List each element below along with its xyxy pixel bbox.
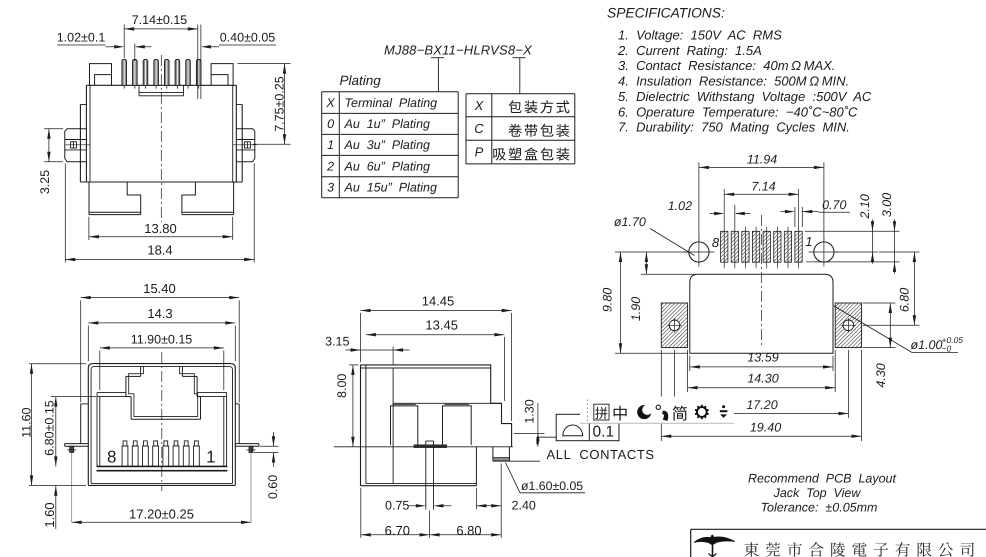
label ø1.60±0.05 with leader — [506, 463, 586, 494]
dim 0.70 (pcb) — [780, 198, 850, 227]
svg-text:1: 1 — [327, 138, 334, 152]
dim 1.02 (pcb) — [668, 199, 751, 227]
svg-text:14.30: 14.30 — [747, 372, 778, 386]
IME 简 — [673, 406, 687, 421]
dim 11.94 (pcb) — [699, 153, 824, 241]
packing table text 吸塑盒包装 — [493, 147, 569, 160]
svg-text:1.02±0.1: 1.02±0.1 — [57, 31, 106, 45]
specifications title — [607, 6, 725, 21]
svg-text:0.70: 0.70 — [822, 198, 846, 212]
note Recommend PCB Layout — [748, 472, 897, 515]
top view: body top protrusion right — [211, 64, 233, 86]
label ø1.70 with leader (pcb) — [614, 215, 695, 256]
dim 9.80 (pcb) — [601, 252, 689, 353]
front view: face recess — [97, 393, 227, 467]
dim 14.45 (side view) — [361, 293, 512, 421]
dim 8.00 (side view) — [335, 365, 358, 447]
dim 13.45 (side view) — [366, 318, 505, 401]
pcb layout: centerline — [760, 215, 762, 345]
pcb layout: footprint outline — [690, 274, 833, 353]
label Plating — [340, 73, 382, 88]
svg-text:2.10: 2.10 — [858, 194, 872, 219]
svg-text:Jack Top View: Jack Top View — [773, 486, 862, 500]
svg-text:Recommend PCB Layout: Recommend PCB Layout — [748, 472, 897, 486]
svg-text:Au 15u” Plating: Au 15u” Plating — [344, 181, 437, 195]
side view: top inner line — [361, 365, 491, 484]
svg-text:7. Durability: 750 Mating: 7. Durability: 750 Mating Cycles MIN. — [618, 120, 850, 135]
dim 13.80 (top view) — [89, 217, 233, 240]
dim 11.60 (front view) — [19, 364, 86, 486]
IME 中 — [614, 406, 627, 421]
svg-text:0: 0 — [327, 117, 334, 131]
top view: body right walls — [233, 85, 243, 182]
svg-text:8: 8 — [107, 447, 116, 466]
dim 2.10 (pcb) — [805, 194, 878, 264]
front view: left wing and shield pin — [65, 444, 89, 453]
dim 1.02±0.1 (top view) — [57, 31, 152, 62]
front view: shield pin extension lines — [72, 453, 251, 523]
dim 4.30 (pcb) — [863, 303, 896, 388]
top view: body bottom edge — [80, 181, 242, 183]
company box — [691, 529, 986, 557]
packing table grid — [466, 94, 575, 164]
svg-text:MJ88−BX11−HLRVS8−X: MJ88−BX11−HLRVS8−X — [384, 43, 533, 58]
dim 1.30 (side view) — [514, 399, 545, 447]
part number MJ88-BX11-HLRVS8-X — [384, 43, 533, 58]
dim 7.14±0.15 (top view) — [124, 13, 198, 99]
svg-text:3: 3 — [327, 181, 334, 195]
dim 7.14 (pcb) — [724, 180, 798, 197]
svg-text:3.00: 3.00 — [880, 193, 894, 217]
front view: contact floor — [97, 466, 228, 470]
dim 15.40 (front view) — [81, 281, 240, 403]
feature control frame (profile 0.1) — [537, 414, 619, 444]
svg-text:P: P — [475, 145, 484, 160]
svg-text:Terminal Plating: Terminal Plating — [345, 96, 438, 110]
pcb layout: pin label 1 — [805, 234, 812, 249]
svg-text:18.4: 18.4 — [147, 243, 172, 258]
side view: face division — [392, 368, 394, 484]
top view: pin recess tray — [139, 85, 184, 96]
svg-text:ø1.00: ø1.00 — [911, 338, 943, 352]
svg-text:0.60: 0.60 — [266, 475, 280, 499]
svg-text:19.40: 19.40 — [750, 421, 781, 435]
svg-text:6. Operature Temperature: −: 6. Operature Temperature: −40˚C~80˚C — [618, 104, 858, 119]
svg-text:3. Contact Resistance: 40m: 3. Contact Resistance: 40m Ω MAX. — [618, 58, 835, 73]
svg-text:0.40±0.05: 0.40±0.05 — [220, 31, 276, 45]
top view: centerline — [160, 55, 162, 222]
svg-text:1.30: 1.30 — [523, 399, 537, 423]
top view: right foot — [182, 182, 234, 215]
front view: bottom edges — [88, 483, 235, 485]
svg-text:ø1.60±0.05: ø1.60±0.05 — [521, 479, 583, 493]
svg-text:2. Current Rating: 1.5A: 2. Current Rating: 1.5A — [617, 43, 762, 58]
IME toolbar background — [580, 397, 734, 424]
svg-text:SPECIFICATIONS:: SPECIFICATIONS: — [607, 6, 725, 21]
front view: centerline — [161, 352, 163, 491]
dim 17.20±0.25 (front view) — [72, 507, 251, 525]
svg-text:8: 8 — [712, 235, 720, 250]
company name 東莞市合陵電子有限公司 — [744, 542, 974, 557]
front view: label 8 — [107, 447, 116, 466]
pcb layout: pin label 8 — [712, 235, 720, 250]
dim 0.75 (side view) — [385, 499, 451, 513]
svg-text:C: C — [474, 121, 484, 136]
dim 1.90 (pcb) — [629, 252, 694, 321]
side view: left tower — [391, 404, 418, 445]
side view: solder pin ø1.60 — [493, 447, 540, 461]
pcb layout: hole ø1.70 left — [683, 238, 714, 267]
svg-text:ALL CONTACTS: ALL CONTACTS — [547, 447, 655, 462]
svg-text:1.90: 1.90 — [629, 297, 643, 321]
svg-text:7.14±0.15: 7.14±0.15 — [132, 13, 188, 27]
svg-text:1.60: 1.60 — [42, 502, 57, 527]
svg-text:15.40: 15.40 — [143, 281, 176, 296]
front view: 8 contacts — [122, 441, 199, 467]
dim 2.40 (side view) — [476, 464, 536, 513]
svg-text:1: 1 — [206, 447, 215, 466]
dim 18.4 (top view) — [65, 164, 254, 263]
leader from BX11 to plating table — [437, 58, 439, 92]
side view: contact base plate — [414, 445, 447, 448]
svg-text:2.40: 2.40 — [512, 499, 536, 513]
svg-text:13.80: 13.80 — [144, 221, 177, 236]
top view: body top protrusion left — [90, 64, 112, 86]
svg-text:17.20: 17.20 — [746, 398, 777, 412]
IME 拼 boxed — [594, 404, 609, 420]
dim 6.80 (pcb) — [863, 252, 920, 325]
front view: outer shell — [88, 364, 235, 486]
svg-text:11.90±0.15: 11.90±0.15 — [131, 333, 193, 347]
pcb layout: mounting pad right — [835, 303, 861, 348]
svg-text:Au 6u” Plating: Au 6u” Plating — [344, 160, 431, 174]
packing table letters — [474, 98, 485, 160]
dim 6.70 and 6.80 (side view) — [361, 488, 501, 538]
svg-text:3.25: 3.25 — [38, 170, 52, 194]
dim 3.15 (side view) — [325, 335, 409, 365]
svg-text:ø1.70: ø1.70 — [614, 215, 646, 229]
top view: left foot — [89, 182, 141, 215]
dim 11.90±0.15 (front view) — [100, 333, 224, 391]
dim 14.30 (pcb) — [688, 350, 836, 392]
dim 0.60 (front view) — [254, 432, 280, 499]
plating table grid — [322, 92, 459, 198]
svg-text:4.30: 4.30 — [874, 363, 888, 387]
svg-text:Plating: Plating — [340, 73, 382, 88]
label ø1.00 tolerance with leader (pcb) — [834, 306, 963, 354]
IME degree-comma — [656, 405, 668, 421]
dim 0.40±0.05 (top view) — [201, 25, 276, 100]
pcb layout: hole ø1.70 right — [808, 238, 839, 267]
company logo bird — [694, 535, 735, 557]
dim 1.60 (front view) — [42, 486, 57, 529]
svg-text:13.45: 13.45 — [425, 318, 458, 333]
top view: left latch — [65, 129, 90, 162]
svg-text:1. Voltage: 150V AC RMS: 1. Voltage: 150V AC RMS — [618, 28, 782, 43]
top view: body left walls — [80, 85, 90, 182]
dim 7.75±0.25 (top view) — [238, 64, 291, 145]
side view: outer profile — [361, 365, 512, 486]
dim 14.3 (front view) — [88, 306, 235, 361]
side view: right tower — [443, 404, 472, 445]
svg-text:Tolerance: ±0.05mm: Tolerance: ±0.05mm — [761, 501, 878, 515]
label ALL CONTACTS — [547, 447, 655, 462]
dim 6.80±0.15 (front view) — [42, 397, 96, 467]
svg-text:2: 2 — [326, 160, 334, 174]
top view: body top edge — [86, 84, 236, 86]
packing table text 包装方式 — [508, 100, 569, 113]
svg-text:X: X — [474, 98, 485, 113]
svg-text:14.45: 14.45 — [422, 293, 455, 308]
plating table text — [325, 96, 437, 194]
svg-text:3.15: 3.15 — [325, 335, 349, 349]
packing table text 卷带包装 — [508, 124, 569, 137]
svg-text:0.1: 0.1 — [593, 423, 615, 440]
side view: seating plane line — [334, 446, 513, 448]
svg-text:8.00: 8.00 — [335, 374, 349, 398]
svg-text:6.80: 6.80 — [456, 523, 481, 538]
side view: lower block — [361, 447, 477, 486]
top view: 8 terminal pins — [122, 59, 201, 88]
leader from X to packing table — [519, 58, 521, 94]
pcb layout: 8 pin pads — [721, 189, 803, 268]
side view: cavity bottom — [393, 402, 501, 404]
svg-text:9.80: 9.80 — [601, 288, 615, 312]
pcb layout: mounting pad left — [661, 303, 687, 348]
dim 19.40 (pcb) — [661, 350, 861, 441]
svg-text:0.75: 0.75 — [385, 499, 409, 513]
side view: center contact pin — [426, 441, 434, 510]
front view: right wing and shield pin — [235, 444, 259, 453]
svg-text:7.14: 7.14 — [751, 180, 775, 194]
svg-text:5. Dielectric Withstang Vol: 5. Dielectric Withstang Voltage :500V AC — [618, 89, 872, 104]
IME gear icon — [695, 405, 709, 419]
front view: plug cavity — [126, 366, 201, 419]
svg-text:−0: −0 — [942, 344, 952, 354]
svg-text:1: 1 — [805, 234, 812, 249]
svg-text:6.70: 6.70 — [385, 523, 410, 538]
top view: right latch — [233, 129, 257, 162]
specifications list — [617, 28, 872, 135]
dim 3.00 (pcb) — [806, 193, 900, 274]
svg-text:6.80: 6.80 — [898, 288, 912, 312]
svg-text:1.02: 1.02 — [668, 199, 692, 213]
dim 17.20 (pcb) — [675, 350, 849, 418]
svg-text:14.3: 14.3 — [147, 306, 172, 321]
svg-text:13.59: 13.59 — [747, 351, 778, 365]
svg-text:17.20±0.25: 17.20±0.25 — [129, 507, 194, 522]
svg-text:11.94: 11.94 — [747, 153, 777, 167]
svg-text:Au 3u” Plating: Au 3u” Plating — [344, 138, 431, 152]
IME moon icon — [638, 405, 651, 418]
dim 3.25 (top view) — [38, 129, 63, 194]
svg-text:Au 1u” Plating: Au 1u” Plating — [344, 117, 431, 131]
svg-text:4. Insulation Resistance: 5: 4. Insulation Resistance: 500M Ω MIN. — [618, 74, 849, 89]
front view: label 1 — [206, 447, 215, 466]
svg-text:X: X — [325, 96, 335, 110]
IME menu handle — [720, 405, 728, 417]
svg-text:6.80±0.15: 6.80±0.15 — [42, 400, 56, 456]
front view: side shield walls — [81, 404, 240, 444]
dim 13.59 (pcb) — [690, 351, 833, 372]
